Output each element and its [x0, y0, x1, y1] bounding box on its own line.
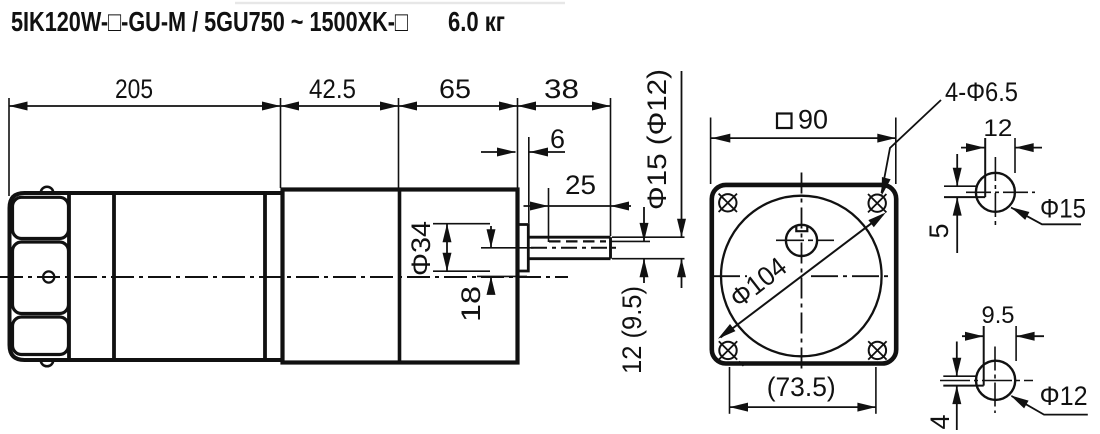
- svg-text:Φ12: Φ12: [1040, 381, 1088, 411]
- svg-text:12 (9.5): 12 (9.5): [617, 286, 647, 374]
- output shaft end: [609, 237, 612, 259]
- dim F34 extension lines: [433, 223, 490, 225]
- main horizontal dimension line: [9, 105, 611, 107]
- svg-text:Φ104: Φ104: [724, 251, 792, 313]
- arrows at x=398: [380, 102, 399, 111]
- detail2 right ext line for 9.5: [1015, 326, 1017, 361]
- rear cover segment top: [13, 197, 69, 238]
- svg-text:18: 18: [456, 286, 486, 322]
- shaft flat hidden line: [549, 240, 606, 242]
- output shaft bottom line: [528, 257, 610, 260]
- svg-text:25: 25: [565, 170, 596, 200]
- extension lines (73.5): [729, 367, 731, 414]
- divider x=399.5 gearhead split: [398, 190, 402, 363]
- detail1 flat vertical edge: [984, 138, 986, 197]
- detail2 flat bottom edge: [943, 385, 983, 387]
- faint scan artifact: [235, 2, 565, 4]
- flange square: [712, 185, 896, 364]
- dim text square90: [777, 114, 792, 129]
- extension line x=548.5 flat start: [548, 188, 550, 242]
- callout F15 leader: [1011, 208, 1081, 225]
- detail2 upper ext line for 4: [943, 375, 976, 377]
- dim 12(9.5) upper arrow: [643, 207, 645, 241]
- gearhead circle: [721, 196, 882, 357]
- extension line x=528.5 hub face: [528, 137, 530, 223]
- rear cover segment middle: [13, 242, 69, 314]
- svg-text:6.0 кг: 6.0 кг: [448, 6, 505, 37]
- detail1 right ext line for 12: [1014, 138, 1016, 173]
- divider x=114: [112, 193, 116, 360]
- detail1 horizontal centerline: [966, 191, 1035, 193]
- vertical centerline: [801, 173, 803, 371]
- bolt hole top-right: [869, 195, 886, 212]
- rear cover segment bottom: [13, 317, 69, 355]
- shaft flat extension line: [611, 240, 650, 242]
- shaft top extension line: [612, 236, 685, 238]
- detail1 shaft section circle: [976, 173, 1015, 212]
- dim 12(9.5) lower arrow: [643, 259, 645, 283]
- dim 12 arrows: [961, 147, 985, 149]
- motor body outline (rounded rear): [10, 193, 283, 360]
- svg-text:12: 12: [983, 115, 1012, 142]
- screw bump top: [41, 187, 54, 193]
- motor centerline: [0, 276, 568, 278]
- extension lines square90: [710, 118, 712, 185]
- svg-text:(73.5): (73.5): [767, 372, 836, 402]
- svg-text:5: 5: [924, 223, 954, 238]
- bolt hole bottom-left: [719, 342, 736, 359]
- detail2 horizontal centerline: [940, 380, 1033, 382]
- svg-text:4: 4: [925, 414, 955, 429]
- output shaft top line: [528, 236, 610, 239]
- shaft centerline: [531, 247, 617, 249]
- svg-text:6: 6: [550, 124, 565, 154]
- detail2 shaft section circle: [976, 361, 1015, 400]
- arrows at x=280: [262, 102, 281, 111]
- extension line x=9: [8, 98, 10, 196]
- bolt hole bottom-right: [869, 342, 886, 359]
- detail1 vertical centerline: [994, 157, 996, 226]
- shaft hole crosshair: [776, 239, 834, 241]
- screw bump bottom: [41, 360, 54, 366]
- dim F104 diagonal line: [721, 215, 884, 338]
- dim 6: left arrow: [481, 151, 516, 153]
- svg-text:9.5: 9.5: [982, 302, 1015, 329]
- horizontal centerline: [712, 275, 747, 277]
- extension line x=280: [280, 98, 282, 188]
- svg-text:Φ15 (Φ12): Φ15 (Φ12): [642, 69, 672, 210]
- svg-text:90: 90: [798, 105, 828, 135]
- extension line x=398: [398, 98, 400, 188]
- arrows at x=517: [499, 102, 518, 111]
- rear center screw: [43, 271, 54, 282]
- dim 4 arrows: [956, 342, 958, 377]
- dim 9.5 arrows: [962, 335, 984, 337]
- callout F12 leader: [1012, 396, 1088, 415]
- dim 18 tick line at motor axis level: [477, 275, 527, 277]
- svg-text:65: 65: [439, 74, 471, 104]
- dim 18 tick line at shaft axis level: [481, 247, 534, 249]
- detail1 flat bottom edge: [944, 196, 985, 198]
- svg-text:Φ34: Φ34: [406, 221, 436, 276]
- dim (73.5) line: [730, 406, 876, 408]
- detail2 flat vertical edge: [983, 326, 985, 386]
- arrow at x=9 pointing left: [9, 102, 28, 111]
- output hub boss: [518, 225, 529, 272]
- dim 18 arrows: [490, 226, 492, 248]
- extension line x=610 shaft end: [610, 98, 612, 236]
- svg-text:Φ15: Φ15: [1040, 194, 1086, 224]
- extension line x=517: [517, 98, 519, 188]
- shaft bottom extension line: [612, 258, 685, 260]
- bolt hole top-left: [719, 194, 736, 211]
- dim square90 line: [711, 137, 896, 139]
- shaft hole keyway: [796, 226, 807, 232]
- divider x=69: [67, 193, 71, 360]
- svg-text:205: 205: [115, 74, 153, 104]
- svg-text:38: 38: [544, 74, 579, 104]
- dim F15(F12) upper arrow: [681, 71, 683, 237]
- svg-text:4-Φ6.5: 4-Φ6.5: [945, 77, 1018, 107]
- dim 6: right arrow: [530, 151, 566, 153]
- detail2 vertical centerline: [994, 347, 996, 414]
- dim F15(F12) lower arrow: [681, 259, 683, 288]
- svg-text:5IK120W-□-GU-M / 5GU750 ~ 1500: 5IK120W-□-GU-M / 5GU750 ~ 1500XK-□: [11, 6, 408, 37]
- divider x=265 motor case end: [263, 193, 267, 360]
- detail1 upper ext line for 5: [944, 185, 977, 187]
- shaft hole: [786, 225, 817, 256]
- svg-text:42.5: 42.5: [309, 74, 356, 104]
- dim 5 arrows: [956, 154, 958, 186]
- callout 4-F6.5 leader: [882, 100, 942, 193]
- gearhead body outline: [283, 190, 518, 363]
- dim F34 vertical line with arrows: [446, 224, 448, 272]
- arrow at x=610 pointing right: [592, 102, 611, 111]
- dim 25: [524, 205, 632, 207]
